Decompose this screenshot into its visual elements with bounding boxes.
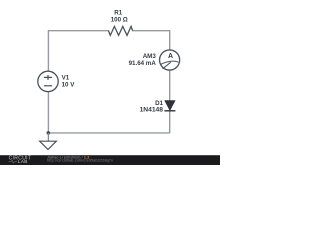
resistor R1 — [108, 26, 132, 35]
wire bottom horizontal — [48, 132, 170, 134]
svg-text:A: A — [168, 53, 173, 60]
wire top-left horizontal — [48, 30, 109, 32]
wire left vertical to V1 — [47, 30, 49, 71]
svg-text:http://circuitlab.com/c/e95ab2: http://circuitlab.com/c/e95ab2228q7v — [47, 159, 113, 163]
wire ammeter bottom to diode — [169, 70, 171, 101]
ammeter needle — [163, 62, 171, 69]
ammeter scale arc — [160, 61, 178, 64]
wire V1 bottom to junction — [47, 92, 49, 134]
svg-text:R1: R1 — [114, 9, 122, 16]
svg-text:10 V: 10 V — [62, 82, 76, 89]
V1 plus sign — [44, 75, 52, 80]
footer bar — [0, 155, 220, 165]
ground — [40, 141, 57, 149]
svg-text:91.64 mA: 91.64 mA — [129, 60, 157, 67]
voltage source V1 — [38, 71, 58, 91]
footer logo waveform — [9, 160, 17, 163]
svg-text:1N4148: 1N4148 — [140, 107, 164, 114]
ground stub wire — [47, 133, 49, 141]
svg-text:LAB: LAB — [18, 159, 28, 164]
diode D1 triangle — [165, 101, 175, 111]
diode D1 cathode bar — [164, 110, 175, 112]
svg-text:100 Ω: 100 Ω — [111, 17, 128, 24]
junction node — [47, 131, 51, 135]
ammeter AM3 — [160, 50, 180, 70]
svg-text:V1: V1 — [62, 74, 70, 81]
V1 minus sign — [44, 85, 52, 87]
wire diode bottom to corner — [169, 111, 171, 134]
wire top-right horizontal with corner down to ammeter — [132, 31, 170, 51]
